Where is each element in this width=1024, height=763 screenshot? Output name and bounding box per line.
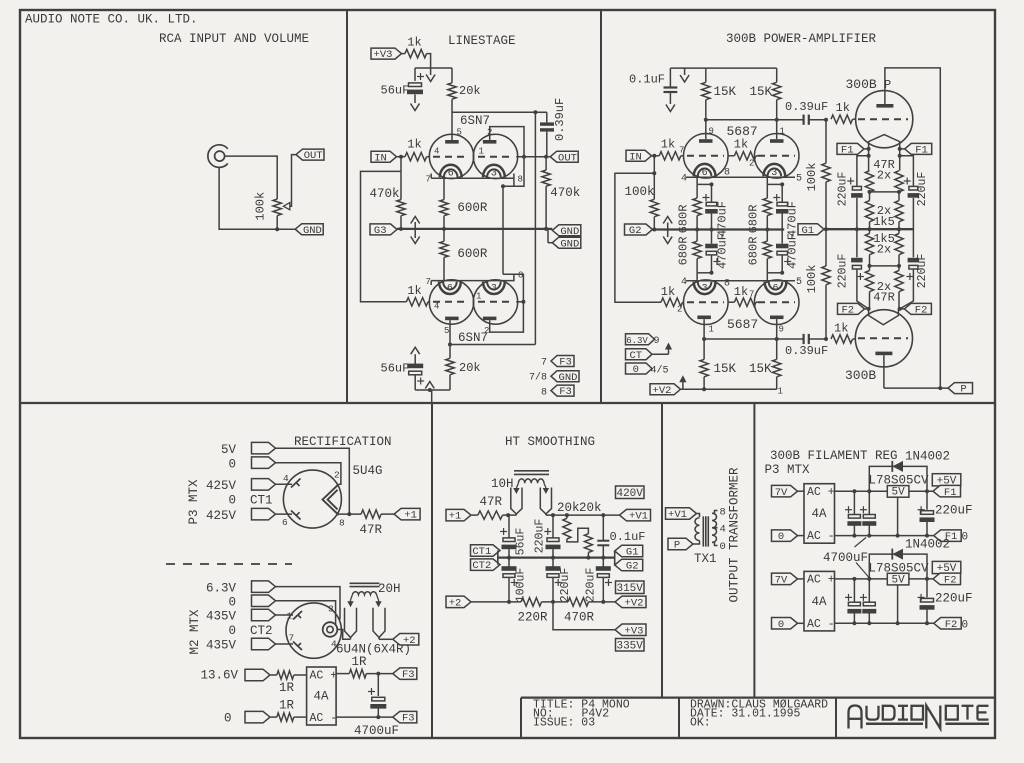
ground arrow below 56uF bbox=[411, 104, 420, 111]
svg-text:56uF: 56uF bbox=[381, 84, 410, 98]
resistor 1R (F3+ out) bbox=[336, 655, 393, 678]
tube 300B lower bbox=[845, 309, 913, 383]
svg-text:300B FILAMENT REG: 300B FILAMENT REG bbox=[770, 449, 898, 463]
capacitor 56uF (lower decoupling) bbox=[381, 347, 425, 390]
wire 1k to decoupling node bbox=[415, 54, 452, 68]
tag GND (upper) bbox=[552, 225, 581, 238]
rail continuation arrows at G3 bbox=[411, 217, 420, 244]
svg-text:470uF: 470uF bbox=[716, 233, 730, 269]
wire 6.3V to pin 3 bbox=[276, 587, 341, 620]
capacitor 220uF (HT lower mid) bbox=[546, 558, 573, 603]
heater tags 7/8 GND bbox=[529, 371, 579, 384]
svg-text:6.3V: 6.3V bbox=[206, 582, 237, 596]
svg-text:0: 0 bbox=[228, 458, 236, 472]
svg-text:600R: 600R bbox=[457, 201, 488, 215]
svg-text:F3: F3 bbox=[402, 713, 415, 725]
label 13.6V bbox=[201, 669, 239, 683]
tag F1 left bbox=[837, 143, 869, 156]
filament nodes top 300B bbox=[867, 147, 902, 171]
boxed label 420V bbox=[616, 486, 645, 500]
svg-text:0.39uF: 0.39uF bbox=[553, 98, 567, 141]
capacitor 220uF (F1) bbox=[918, 491, 973, 537]
resistor 1k (300B bottom grid) bbox=[831, 322, 856, 344]
svg-text:1k: 1k bbox=[407, 36, 421, 50]
tag 6.3V with pin 9 bbox=[626, 334, 660, 347]
svg-text:G2: G2 bbox=[629, 225, 642, 237]
svg-text:1k: 1k bbox=[407, 138, 421, 152]
svg-text:47R: 47R bbox=[360, 523, 383, 537]
svg-text:CT1: CT1 bbox=[472, 546, 491, 558]
upper triode B anode-cathode loop bbox=[490, 127, 526, 275]
svg-text:4: 4 bbox=[283, 473, 289, 484]
svg-text:8: 8 bbox=[724, 279, 730, 290]
bridge box 4A (F1) bbox=[798, 484, 835, 544]
wire IN to grid node bbox=[397, 155, 406, 159]
tag 5V row bbox=[221, 442, 276, 457]
svg-text:4: 4 bbox=[720, 524, 726, 536]
svg-text:8: 8 bbox=[339, 518, 345, 529]
section title LINESTAGE bbox=[448, 34, 516, 48]
svg-text:56uF: 56uF bbox=[381, 362, 410, 376]
diode 1N4002 (F2) bbox=[869, 549, 927, 579]
svg-text:G3: G3 bbox=[374, 225, 387, 237]
svg-text:470uF: 470uF bbox=[716, 201, 730, 237]
svg-text:5U4G: 5U4G bbox=[353, 464, 383, 478]
svg-text:AC +: AC + bbox=[807, 574, 835, 587]
label 0 (rect bottom) bbox=[224, 712, 232, 726]
wire 425V to pin 6 bbox=[276, 513, 293, 515]
svg-text:8: 8 bbox=[720, 507, 726, 519]
svg-text:ISSUE: 03: ISSUE: 03 bbox=[533, 717, 595, 730]
svg-text:0.39uF: 0.39uF bbox=[785, 100, 828, 114]
tag F2 right bbox=[900, 303, 932, 316]
tag 0 (F1) bbox=[772, 530, 805, 543]
resistor 1k (lower grid stopper) bbox=[406, 284, 430, 306]
label 5U4G bbox=[353, 464, 383, 478]
svg-text:8: 8 bbox=[541, 388, 547, 399]
tag G1 (HT) bbox=[615, 545, 643, 558]
tag CT with arrow bbox=[626, 343, 673, 362]
svg-text:AUDIO NOTE CO. UK. LTD.: AUDIO NOTE CO. UK. LTD. bbox=[25, 13, 198, 27]
svg-text:+V2: +V2 bbox=[653, 385, 672, 397]
resistor 100k lower bbox=[805, 229, 830, 339]
svg-text:1k: 1k bbox=[734, 138, 748, 152]
svg-text:P3 MTX: P3 MTX bbox=[187, 479, 201, 525]
tag 13.6V bbox=[245, 669, 270, 681]
capacitor 4700uF a (F1) bbox=[845, 491, 861, 537]
svg-text:+1: +1 bbox=[449, 511, 462, 523]
svg-text:56uF: 56uF bbox=[515, 528, 528, 556]
svg-text:335V: 335V bbox=[616, 641, 643, 653]
svg-text:300B POWER-AMPLIFIER: 300B POWER-AMPLIFIER bbox=[726, 32, 877, 46]
svg-text:9: 9 bbox=[709, 127, 714, 137]
svg-text:M2 MTX: M2 MTX bbox=[188, 609, 202, 655]
svg-text:220uF: 220uF bbox=[935, 504, 973, 518]
svg-text:+V1: +V1 bbox=[668, 509, 687, 521]
svg-text:20k: 20k bbox=[579, 501, 602, 515]
svg-text:7V: 7V bbox=[775, 487, 788, 499]
svg-text:220R: 220R bbox=[518, 611, 549, 625]
svg-text:3: 3 bbox=[702, 284, 708, 295]
svg-text:20k: 20k bbox=[557, 501, 580, 515]
resistor 15K upper right bbox=[750, 68, 781, 120]
resistor 680R lower A bbox=[677, 230, 702, 273]
resistor 15K lower right bbox=[749, 339, 781, 389]
svg-text:9: 9 bbox=[654, 336, 660, 347]
tube 5U4G bbox=[282, 470, 345, 529]
wire jack ground to pot bottom and GND bbox=[219, 167, 295, 231]
svg-text:470uF: 470uF bbox=[786, 233, 800, 269]
svg-text:1k: 1k bbox=[836, 101, 850, 115]
label L78S05CV (F2) bbox=[869, 561, 930, 575]
plate wire 300B bottom to P tag bbox=[884, 355, 948, 390]
svg-text:GND: GND bbox=[560, 238, 579, 250]
tube 6SN7 upper triode A bbox=[429, 128, 473, 180]
tag F1 right bbox=[900, 143, 932, 156]
resistor 220R bbox=[518, 598, 569, 625]
label 0 CT1 bbox=[228, 494, 272, 508]
choke terminal left (bottle) bbox=[345, 608, 357, 640]
svg-text:AC +: AC + bbox=[807, 486, 835, 499]
svg-text:1R: 1R bbox=[279, 699, 295, 713]
tube 300B upper bbox=[846, 77, 913, 148]
lower anode node and long rail to 0.39uF node bbox=[448, 112, 535, 358]
svg-text:GND: GND bbox=[303, 225, 322, 237]
tag 7V (F2) bbox=[772, 573, 798, 586]
svg-text:220uF: 220uF bbox=[935, 591, 973, 605]
svg-text:1: 1 bbox=[479, 147, 484, 157]
capacitor 220uF top-left bbox=[837, 156, 869, 229]
capacitor 0.39uF (output) bbox=[535, 98, 567, 157]
label 5687 upper bbox=[727, 124, 758, 139]
svg-text:100k: 100k bbox=[805, 163, 819, 192]
svg-text:15K: 15K bbox=[714, 85, 737, 99]
upper cathode wire pins 7-8 bbox=[426, 174, 523, 185]
resistor 47R (rectifier output) bbox=[360, 510, 395, 537]
svg-text:0: 0 bbox=[778, 531, 784, 543]
plate wire 300B top bbox=[885, 68, 940, 388]
CT/G ground rail bbox=[498, 551, 615, 566]
svg-text:AC -: AC - bbox=[310, 712, 338, 725]
label 1N4002 (F1) bbox=[905, 450, 950, 464]
resistor 1R (AC+ in) bbox=[271, 671, 307, 695]
svg-text:AC -: AC - bbox=[807, 618, 835, 631]
tag F3 (+) bbox=[393, 668, 417, 681]
svg-text:F3: F3 bbox=[402, 669, 415, 681]
svg-text:1N4002: 1N4002 bbox=[905, 450, 950, 464]
resistor 15K lower left bbox=[700, 339, 737, 389]
svg-text:7: 7 bbox=[426, 175, 431, 185]
svg-text:15K: 15K bbox=[714, 362, 737, 376]
svg-text:1k: 1k bbox=[407, 284, 421, 298]
label 6SN7 upper bbox=[460, 114, 490, 128]
svg-text:5: 5 bbox=[796, 174, 802, 185]
svg-text:7V: 7V bbox=[775, 575, 788, 587]
title block bbox=[521, 698, 995, 738]
lower cathode wire pins 7-8 bbox=[426, 271, 524, 288]
svg-text:4: 4 bbox=[434, 302, 439, 312]
svg-text:4700uF: 4700uF bbox=[354, 724, 399, 738]
svg-text:0: 0 bbox=[224, 712, 232, 726]
svg-text:OUT: OUT bbox=[304, 150, 323, 162]
svg-text:470k: 470k bbox=[370, 187, 400, 201]
svg-text:F2: F2 bbox=[841, 305, 854, 317]
svg-text:600R: 600R bbox=[457, 247, 488, 261]
svg-text:680R: 680R bbox=[747, 237, 761, 266]
ground arrow below 0.1uF bbox=[666, 105, 675, 112]
boxed label +5V (F2) bbox=[932, 561, 961, 575]
tag IN (linestage) bbox=[371, 151, 397, 164]
tag P bbox=[948, 383, 973, 396]
svg-text:100k: 100k bbox=[254, 192, 268, 221]
tube 6SN7 upper triode B bbox=[473, 128, 517, 180]
svg-text:6: 6 bbox=[447, 284, 453, 295]
AC+ rail (F2) bbox=[835, 577, 934, 581]
wire 435V to pin 7 bbox=[276, 643, 294, 645]
capacitor 4700uF a (F2) bbox=[845, 579, 861, 625]
capacitor 4700uF (rect) bbox=[354, 674, 399, 738]
svg-text:15K: 15K bbox=[749, 362, 772, 376]
header text AUDIO NOTE CO. UK. LTD. bbox=[25, 13, 198, 27]
svg-text:8: 8 bbox=[518, 271, 523, 281]
capacitor 4700uF b (F1) bbox=[860, 491, 876, 537]
svg-text:7: 7 bbox=[679, 146, 684, 156]
wire to +V3 bbox=[553, 602, 615, 630]
wire to lower grid (300B section) bbox=[615, 173, 661, 302]
capacitor 220uF top-right bbox=[900, 156, 929, 229]
svg-text:OUTPUT TRANSFORMER: OUTPUT TRANSFORMER bbox=[728, 467, 742, 603]
lower anode rail to 0.39uF bbox=[702, 319, 804, 341]
label 6U4N(6X4R) bbox=[336, 643, 411, 657]
tag 0 (F2) bbox=[772, 618, 805, 631]
resistor 1k (300B top grid) bbox=[831, 101, 856, 123]
svg-text:315V: 315V bbox=[616, 583, 643, 595]
svg-text:+1: +1 bbox=[404, 510, 417, 522]
svg-text:1: 1 bbox=[778, 387, 783, 397]
svg-text:100k: 100k bbox=[805, 265, 819, 294]
svg-text:100k: 100k bbox=[625, 185, 655, 199]
section title OUTPUT TRANSFORMER bbox=[728, 467, 742, 603]
label 0 CT2 bbox=[228, 624, 272, 638]
label M2 MTX bbox=[188, 609, 202, 655]
section title RECTIFICATION bbox=[294, 435, 392, 449]
top supply rail bbox=[670, 67, 776, 69]
choke terminal left (HT bottle) bbox=[511, 488, 522, 516]
transformer TX1 bbox=[693, 507, 726, 567]
svg-text:F1: F1 bbox=[915, 145, 928, 157]
wire 20k to anode node, node to 0.39uF bbox=[452, 99, 547, 140]
bridge box 4A bbox=[307, 667, 338, 725]
svg-text:4: 4 bbox=[434, 147, 439, 157]
resistor 47R 2x pair lower bbox=[865, 266, 903, 309]
tag +V1 (TX) bbox=[666, 508, 697, 521]
svg-text:425V: 425V bbox=[206, 509, 237, 523]
resistor 1k (upper grid A) bbox=[659, 138, 684, 161]
wire 0 to cathode top bbox=[276, 601, 336, 625]
svg-text:9: 9 bbox=[779, 325, 784, 335]
svg-text:0.39uF: 0.39uF bbox=[785, 344, 828, 358]
svg-text:+V3: +V3 bbox=[625, 625, 644, 637]
svg-text:F1: F1 bbox=[841, 145, 854, 157]
svg-text:220uF: 220uF bbox=[534, 519, 547, 554]
svg-text:LINESTAGE: LINESTAGE bbox=[448, 34, 516, 48]
tag IN (300B section) bbox=[626, 150, 652, 163]
resistor 20k (lower anode load) bbox=[446, 358, 481, 390]
label P3 MTX (filament) bbox=[765, 463, 811, 477]
svg-text:4A: 4A bbox=[812, 507, 828, 521]
svg-text:IN: IN bbox=[629, 151, 642, 163]
wire AC- to F3 bbox=[336, 715, 393, 719]
resistor 100k upper (grid 300B top) bbox=[805, 120, 830, 230]
resistor 100k (input grid leak) bbox=[625, 156, 659, 230]
labels 20k 20k bbox=[557, 501, 602, 515]
bridge box 4A (F2) bbox=[798, 571, 835, 631]
svg-text:G2: G2 bbox=[626, 561, 639, 573]
tube 5687 upper triode B bbox=[749, 120, 802, 185]
capacitor 220uF (HT lower right) bbox=[585, 558, 613, 603]
svg-text:GND: GND bbox=[560, 226, 579, 238]
tag 0 row (M2) bbox=[228, 595, 275, 610]
capacitor 470uF lower B bbox=[776, 230, 800, 273]
tag F2 (reg out) bbox=[933, 573, 961, 586]
AC- rail (F2) bbox=[835, 622, 934, 624]
tag OUT (linestage) bbox=[550, 151, 578, 164]
svg-text:680R: 680R bbox=[677, 237, 691, 266]
svg-text:20H: 20H bbox=[378, 582, 401, 596]
resistor 1k (interstage lower) bbox=[728, 285, 759, 306]
upper anode rail to 0.39uF bbox=[704, 118, 804, 122]
svg-text:CT1: CT1 bbox=[250, 494, 273, 508]
svg-text:1k: 1k bbox=[734, 285, 748, 299]
tag +2 (HT in) bbox=[446, 596, 471, 609]
svg-text:220uF: 220uF bbox=[916, 254, 929, 289]
svg-text:7: 7 bbox=[426, 277, 431, 287]
wire jack to pot top bbox=[225, 156, 278, 199]
svg-text:5: 5 bbox=[457, 128, 462, 138]
tube 5687 lower triode B bbox=[749, 277, 802, 335]
svg-text:0: 0 bbox=[778, 619, 784, 631]
tag F2 left bbox=[838, 303, 869, 316]
tag 6.3V row (M2) bbox=[206, 581, 276, 596]
+2 rail to 220R bbox=[472, 600, 522, 604]
svg-text:5: 5 bbox=[796, 277, 802, 288]
tag OUT bbox=[296, 149, 324, 162]
tag G2 (HT) bbox=[615, 559, 643, 572]
svg-text:5V: 5V bbox=[221, 443, 237, 457]
svg-text:TX1: TX1 bbox=[694, 552, 717, 566]
label 6SN7 lower bbox=[458, 331, 488, 345]
svg-text:0: 0 bbox=[720, 541, 726, 553]
tag F1 (reg out) bbox=[933, 485, 961, 498]
potentiometer 100k bbox=[254, 192, 282, 221]
svg-text:220uF: 220uF bbox=[837, 254, 850, 289]
svg-text:0: 0 bbox=[228, 624, 236, 638]
AC+ rail (F1) bbox=[835, 489, 934, 493]
section title RCA INPUT AND VOLUME bbox=[159, 32, 309, 46]
svg-text:F2: F2 bbox=[944, 575, 957, 587]
tag 435V lower bbox=[206, 638, 276, 652]
svg-text:0: 0 bbox=[228, 596, 236, 610]
svg-text:1k: 1k bbox=[834, 322, 848, 336]
svg-text:1R: 1R bbox=[279, 681, 295, 695]
svg-text:20k: 20k bbox=[459, 84, 481, 98]
svg-text:1: 1 bbox=[476, 292, 481, 302]
wire 5V to pin 8 node bbox=[276, 448, 352, 516]
tag 0 (rect bottom) bbox=[245, 711, 270, 723]
tag P (TX) bbox=[668, 538, 693, 551]
heater tags 7 F3 bbox=[541, 356, 574, 369]
resistor 680R upper B bbox=[747, 184, 772, 233]
resistor 470R bbox=[564, 598, 615, 625]
tag GND bbox=[295, 224, 323, 237]
tube 5687 upper triode A bbox=[679, 120, 728, 185]
svg-text:425V: 425V bbox=[206, 479, 237, 493]
svg-text:F3: F3 bbox=[559, 357, 572, 369]
svg-text:0: 0 bbox=[228, 494, 236, 508]
svg-text:F3: F3 bbox=[559, 386, 572, 398]
choke 10H bbox=[491, 471, 549, 494]
RCA jack J1 bbox=[208, 145, 228, 168]
svg-text:13.6V: 13.6V bbox=[201, 669, 239, 683]
svg-text:220uF: 220uF bbox=[585, 568, 598, 603]
svg-text:220uF: 220uF bbox=[837, 172, 850, 207]
svg-text:1: 1 bbox=[780, 127, 785, 137]
section title HT SMOOTHING bbox=[505, 435, 595, 449]
+V1 rail bbox=[546, 513, 620, 517]
svg-text:6: 6 bbox=[772, 284, 778, 295]
resistor 470k (output load) bbox=[542, 157, 580, 229]
tag +V3 (HT) bbox=[615, 624, 646, 637]
svg-text:2x: 2x bbox=[877, 243, 891, 257]
svg-text:0.1uF: 0.1uF bbox=[629, 73, 665, 87]
svg-text:6.3V: 6.3V bbox=[626, 336, 648, 346]
svg-text:6SN7: 6SN7 bbox=[458, 331, 488, 345]
svg-text:47R: 47R bbox=[480, 495, 503, 509]
capacitor 0.1uF (supply bypass) bbox=[629, 68, 677, 104]
tag CT2 bbox=[471, 559, 501, 572]
svg-text:4A: 4A bbox=[314, 690, 330, 704]
svg-text:OK:: OK: bbox=[690, 717, 711, 730]
svg-text:100uF: 100uF bbox=[515, 568, 528, 603]
tag 0 with pin 4/5 bbox=[626, 363, 669, 376]
tag F3 (-) bbox=[393, 711, 417, 724]
svg-text:2: 2 bbox=[334, 470, 340, 481]
wire 425V to pin 4 bbox=[276, 483, 293, 485]
regulator box 5V (F2) bbox=[887, 573, 909, 625]
svg-text:0.1uF: 0.1uF bbox=[610, 530, 646, 544]
svg-text:4: 4 bbox=[681, 277, 687, 288]
wire grid B to OUT node bbox=[516, 155, 550, 159]
capacitor 470uF upper A bbox=[703, 184, 730, 237]
svg-text:5: 5 bbox=[444, 326, 449, 336]
tag F1 0 (F1) bbox=[934, 530, 968, 544]
resistor 470k (grid leak) bbox=[370, 157, 406, 229]
svg-text:2x: 2x bbox=[877, 169, 891, 183]
svg-text:20k: 20k bbox=[459, 361, 481, 375]
svg-text:0: 0 bbox=[633, 364, 639, 376]
svg-text:4/5: 4/5 bbox=[651, 364, 669, 376]
tag +V2 and rail bbox=[650, 375, 783, 397]
svg-text:435V: 435V bbox=[206, 639, 237, 653]
svg-text:4: 4 bbox=[681, 174, 687, 185]
svg-text:5687: 5687 bbox=[727, 317, 758, 332]
resistor 20k series A bbox=[563, 515, 589, 542]
svg-text:7: 7 bbox=[541, 358, 547, 369]
tag +V1 (HT) bbox=[620, 509, 651, 522]
rail arrow down at V3 node bbox=[426, 68, 435, 82]
svg-text:CT2: CT2 bbox=[472, 560, 491, 572]
tag G3 and ground rail bbox=[370, 224, 552, 237]
